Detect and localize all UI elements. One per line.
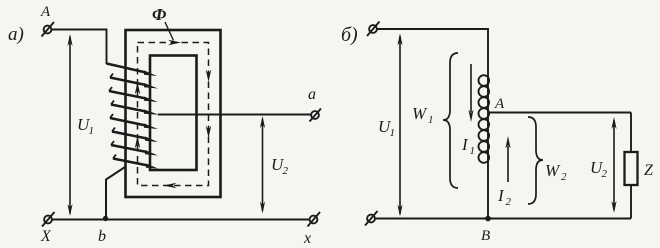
current arrow I2 [505,136,510,182]
svg-text:2: 2 [506,196,512,208]
svg-text:2: 2 [283,165,289,177]
svg-text:B: B [481,228,490,244]
winding W2 brace [528,117,543,204]
winding W1 brace [443,53,458,188]
flux path (dashed) [138,43,209,186]
winding turn 1 (top lead) [107,64,158,77]
label U2 (b) [590,158,608,180]
svg-text:X: X [40,228,52,245]
winding turn 7 [111,141,158,156]
wire A to core top [52,30,107,65]
label I2 [497,186,512,208]
terminal top left (b circuit) [367,22,380,37]
terminal x [308,212,321,227]
winding turn 6 [112,128,158,143]
core window [150,56,197,171]
svg-text:Ф: Ф [152,5,167,24]
label U1 (b) [378,117,395,139]
bottom wire X to x [52,219,310,221]
top wire to coil [378,29,489,75]
load Z [625,152,638,185]
label U2 [271,155,289,177]
svg-text:2: 2 [561,171,567,183]
junction b [103,216,108,221]
voltage arrow U2 [260,116,265,214]
svg-text:A: A [40,4,51,20]
winding turn 4 (tap turn) [111,101,159,115]
svg-text:а): а) [8,24,24,45]
svg-text:I: I [461,135,469,154]
svg-text:W: W [412,104,428,123]
terminal A [42,22,55,37]
flux arrow left upper [135,82,141,95]
svg-text:A: A [494,96,505,112]
winding turn 5 [110,114,158,129]
svg-text:x: x [303,230,311,247]
voltage arrow U1 [67,34,72,216]
right branch wire [630,113,632,219]
flux arrow right lower [206,126,212,139]
svg-text:2: 2 [602,168,608,180]
label U1 [77,115,94,137]
svg-text:1: 1 [390,127,396,139]
label W1 [412,104,434,126]
terminal X [42,212,55,227]
svg-text:1: 1 [89,125,95,137]
winding turn 3 [109,87,158,102]
svg-text:W: W [545,161,561,180]
terminal bottom left (b circuit) [365,211,378,226]
flux arrow top [168,40,181,46]
flux arrow left lower [135,136,141,149]
label I1 [461,135,475,157]
svg-text:1: 1 [470,145,476,157]
svg-text:a: a [308,86,316,103]
winding turn 2 [110,74,158,89]
terminal a [310,109,322,122]
wire tap to terminal a [158,114,311,116]
flux arrow right upper [206,70,212,83]
autotransformer coil [479,75,490,218]
label W2 [545,161,567,183]
voltage arrow U2 (b) [611,117,616,213]
current arrow I1 [468,64,473,122]
leader to flux [165,22,174,41]
junction B [485,216,491,222]
winding turn 8 [113,155,158,169]
flux arrow bottom [164,183,177,189]
svg-text:1: 1 [428,114,434,126]
svg-text:б): б) [341,24,358,46]
svg-text:Z: Z [644,162,654,179]
tap wire A to load [488,112,631,114]
winding bottom lead to b [106,167,125,219]
svg-text:b: b [98,228,106,245]
voltage arrow U1 (b) [397,34,402,217]
core outer [126,30,221,197]
svg-text:I: I [497,186,505,205]
bottom wire (b circuit) [375,218,631,220]
